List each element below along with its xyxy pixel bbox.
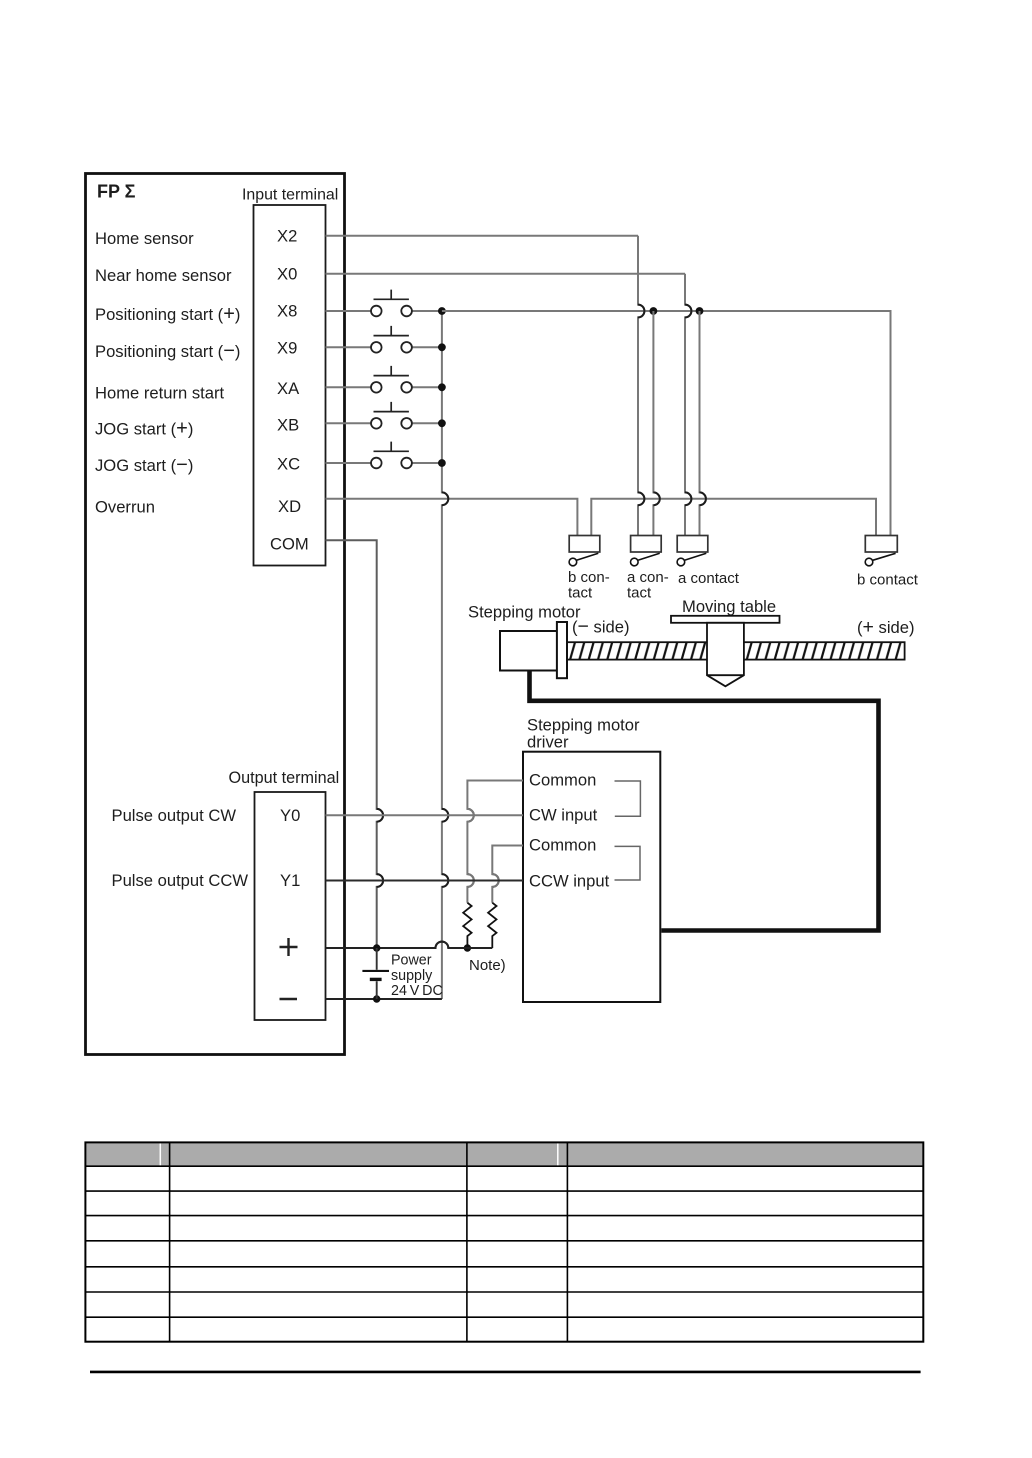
svg-text:Overrun: Overrun bbox=[95, 498, 155, 517]
svg-text:X0: X0 bbox=[277, 265, 297, 284]
junction dot COM/+ bbox=[373, 944, 380, 951]
svg-text:FP Σ: FP Σ bbox=[97, 182, 136, 202]
svg-text:X2: X2 bbox=[277, 227, 297, 246]
wire XD to b contact 1 bbox=[326, 499, 578, 536]
junction dot resistor/+wire bbox=[464, 944, 471, 951]
resistor R2 bbox=[488, 903, 496, 948]
svg-text:Home sensor: Home sensor bbox=[95, 229, 194, 248]
svg-text:Positioning start (−): Positioning start (−) bbox=[95, 340, 240, 362]
svg-text:(+ side): (+ side) bbox=[857, 616, 915, 638]
junction dot X9/bus bbox=[438, 343, 446, 351]
pin - symbol bbox=[280, 998, 298, 1000]
svg-text:Y0: Y0 bbox=[280, 806, 300, 825]
wire -24V bbox=[326, 998, 442, 1000]
junction dot X8/bus bbox=[438, 307, 446, 315]
junction dot XA/bus bbox=[438, 383, 446, 391]
svg-text:b contact: b contact bbox=[857, 572, 919, 589]
svg-text:XC: XC bbox=[277, 455, 300, 474]
svg-text:JOG start (+): JOG start (+) bbox=[95, 418, 193, 440]
svg-text:X8: X8 bbox=[277, 302, 297, 321]
common bus vertical (hops over XD, Y0, Y1 wires) bbox=[442, 311, 448, 999]
battery 24VDC bbox=[362, 948, 389, 999]
wire X0 vertical drop to a-contact 2 (hops over X8 bus and XD wire) bbox=[685, 274, 691, 536]
svg-text:(− side): (− side) bbox=[572, 616, 630, 638]
svg-text:CW input: CW input bbox=[529, 806, 598, 825]
svg-text:Positioning start (+): Positioning start (+) bbox=[95, 303, 240, 325]
switch XA bbox=[326, 366, 442, 393]
pin + symbol bbox=[280, 938, 298, 956]
junction dot a-contact1 right lead on bus bbox=[650, 307, 658, 315]
svg-text:Note): Note) bbox=[469, 957, 506, 974]
svg-text:Stepping motor: Stepping motor bbox=[468, 603, 581, 622]
svg-text:tact: tact bbox=[568, 585, 593, 602]
svg-text:XB: XB bbox=[277, 416, 299, 435]
svg-text:XA: XA bbox=[277, 379, 300, 398]
junction dot XB/bus bbox=[438, 419, 446, 427]
stepping motor body bbox=[500, 631, 557, 671]
wire Y0 to CW input bbox=[326, 814, 524, 816]
wire XD continuation b1 to b4 bbox=[591, 499, 876, 536]
bracket common/CW bbox=[615, 781, 641, 816]
limit switch b contact 1 bbox=[569, 536, 600, 566]
wire Y1 to CCW input bbox=[326, 880, 524, 882]
moving table top plate bbox=[671, 616, 780, 623]
input terminal block bbox=[254, 205, 326, 566]
svg-text:Near home sensor: Near home sensor bbox=[95, 266, 232, 285]
limit switch b contact 2 (far right) bbox=[865, 536, 897, 566]
wire hop arcs (black overlay) bbox=[377, 305, 706, 948]
switch XB bbox=[326, 402, 442, 429]
svg-text:Pulse output CCW: Pulse output CCW bbox=[112, 871, 249, 890]
switch X8 bbox=[326, 290, 442, 317]
junction dot battery/- bbox=[373, 995, 380, 1002]
svg-text:Input terminal: Input terminal bbox=[242, 187, 338, 204]
resistor R1 bbox=[463, 903, 471, 948]
table outer border bbox=[85, 1142, 923, 1341]
svg-text:supply: supply bbox=[391, 968, 433, 984]
svg-text:X9: X9 bbox=[277, 339, 297, 358]
svg-text:JOG start (−): JOG start (−) bbox=[95, 454, 193, 476]
wire Common2 to resistor R2 (hops over CCW wire) bbox=[492, 846, 523, 903]
svg-text:Y1: Y1 bbox=[280, 871, 300, 890]
svg-text:tact: tact bbox=[627, 585, 652, 602]
stepping motor flange bbox=[557, 622, 567, 678]
svg-text:CCW input: CCW input bbox=[529, 872, 610, 891]
bracket common/CCW bbox=[615, 846, 641, 880]
sensor a contact 2 (near home sensor) bbox=[677, 536, 708, 566]
svg-text:Common: Common bbox=[529, 771, 596, 790]
wire a-contact1 right lead vertical (hops over XD) bbox=[653, 311, 659, 536]
svg-text:Pulse output CW: Pulse output CW bbox=[112, 806, 237, 825]
wire a-contact2 right lead vertical (hops over XD) bbox=[700, 311, 706, 536]
wire X2 vertical drop to a-contact 1 (hops over X8 bus and XD wire) bbox=[638, 236, 644, 536]
table header gray fill bbox=[86, 1143, 922, 1166]
thick motor cable to driver bbox=[530, 671, 879, 931]
svg-text:Moving table: Moving table bbox=[682, 597, 776, 616]
switch X9 bbox=[326, 326, 442, 353]
table column lines bbox=[170, 1142, 568, 1341]
stepping motor driver box bbox=[523, 752, 660, 1002]
wire +24V (hops over bus) bbox=[326, 942, 493, 948]
svg-text:XD: XD bbox=[278, 497, 301, 516]
svg-text:b con-: b con- bbox=[568, 569, 610, 586]
svg-text:Power: Power bbox=[391, 953, 432, 969]
svg-text:Home return start: Home return start bbox=[95, 384, 224, 403]
svg-text:driver: driver bbox=[527, 733, 569, 752]
svg-text:Output terminal: Output terminal bbox=[229, 769, 340, 787]
svg-text:COM: COM bbox=[270, 535, 309, 554]
svg-text:a con-: a con- bbox=[627, 569, 669, 586]
wire X0 horizontal bbox=[326, 273, 686, 275]
svg-text:24 V DC: 24 V DC bbox=[391, 983, 443, 999]
sensor a contact 1 (home sensor) bbox=[631, 536, 662, 566]
ball screw shaft with hatching bbox=[567, 642, 905, 659]
svg-text:a contact: a contact bbox=[678, 570, 740, 587]
footer rule bbox=[90, 1371, 921, 1374]
table header white dividers bbox=[160, 1143, 558, 1166]
wire COM bbox=[326, 540, 384, 948]
switch XC bbox=[326, 442, 442, 469]
svg-text:Common: Common bbox=[529, 836, 596, 855]
wire Common1 to resistor R1 (hops over CW and CCW wires) bbox=[467, 781, 523, 903]
junction dot XC/bus bbox=[438, 459, 446, 467]
moving table body with pointed nut bbox=[707, 623, 744, 687]
output terminal block bbox=[255, 792, 326, 1020]
wire X8 bus extension to right b contact bbox=[442, 311, 891, 536]
wire X2 horizontal bbox=[326, 235, 639, 237]
table row lines bbox=[85, 1166, 923, 1317]
junction dot a-contact2 right lead on bus bbox=[696, 307, 704, 315]
PLC outer box FPΣ bbox=[86, 174, 345, 1055]
